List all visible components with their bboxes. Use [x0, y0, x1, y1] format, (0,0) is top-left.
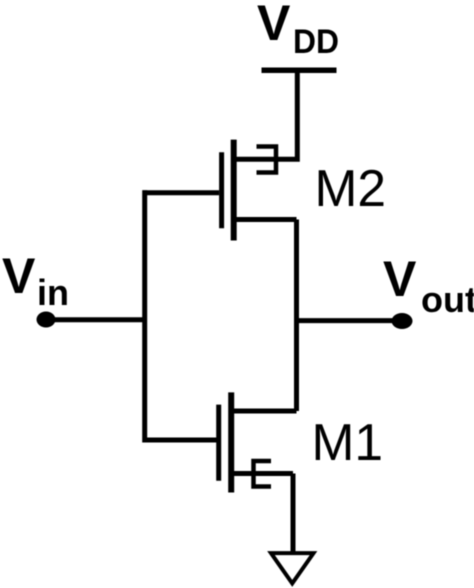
transistor M2 (PMOS) — [222, 140, 297, 241]
gate bus vertical wire — [142, 190, 147, 442]
M2 bulk hook — [257, 147, 277, 173]
svg-text:M1: M1 — [312, 413, 384, 471]
wire gate bus to M1 gate — [143, 438, 217, 443]
svg-text:V: V — [383, 251, 417, 307]
ground symbol — [271, 553, 314, 583]
M1 bulk hook — [254, 461, 272, 487]
transistor M1 (NMOS) — [219, 392, 297, 492]
M1 channel bar — [228, 392, 234, 492]
svg-text:in: in — [37, 272, 69, 313]
M1 source stub — [234, 471, 294, 476]
wire VDD rail to M2 source — [236, 70, 297, 159]
wire M1 source to ground — [291, 474, 296, 553]
svg-text:DD: DD — [293, 23, 339, 61]
node Vout terminal dot — [392, 313, 413, 329]
svg-text:V: V — [257, 0, 291, 51]
svg-text:out: out — [421, 279, 474, 320]
wire gate bus to M2 gate — [143, 190, 220, 195]
net VDD label — [257, 0, 339, 61]
M1 gate bar — [216, 405, 221, 481]
svg-text:V: V — [2, 248, 36, 304]
VDD supply rail — [262, 68, 337, 74]
wire output bus to Vout — [294, 318, 398, 323]
M1 drain stub — [234, 409, 297, 414]
output bus: wire M2 drain to M1 drain — [294, 220, 299, 412]
M2 drain stub — [236, 217, 297, 222]
M2 channel bar — [231, 140, 237, 241]
M2 gate bar — [219, 152, 224, 228]
node Vout label — [383, 251, 474, 320]
svg-text:M2: M2 — [315, 159, 387, 217]
wire Vin to gate bus — [46, 317, 145, 322]
node Vin terminal dot — [37, 312, 56, 328]
node Vin label — [2, 248, 69, 313]
